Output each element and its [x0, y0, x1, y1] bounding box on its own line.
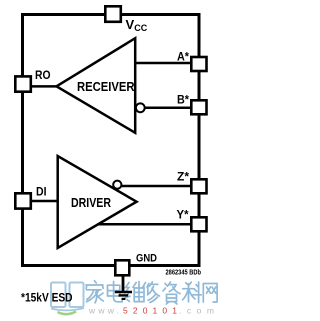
wire RO: [31, 85, 58, 88]
pin DI: [15, 193, 30, 208]
料: [183, 282, 202, 303]
wire Z*: [121, 185, 192, 188]
资: [163, 282, 180, 304]
svg-text:V: V: [126, 17, 135, 32]
svg-text:.com: .com: [179, 306, 214, 316]
pin A*: [191, 57, 206, 71]
svg-text:Y*: Y*: [177, 208, 189, 222]
wire B*: [144, 107, 192, 110]
wire bottom: [21, 264, 201, 267]
svg-text:*15kV ESD: *15kV ESD: [21, 290, 73, 304]
pin RO: [15, 76, 30, 91]
ground: [115, 276, 132, 299]
op-amp DRIVER: [58, 156, 137, 248]
pin GND: [115, 260, 129, 275]
pin VCC: [105, 6, 121, 21]
pin Y*: [191, 217, 206, 231]
wire top: [21, 13, 201, 16]
svg-text:GND: GND: [136, 253, 157, 265]
watermark chinese text 家电维修资料网: [86, 281, 217, 304]
pin Z*: [191, 179, 206, 193]
svg-text:www.: www.: [88, 306, 119, 316]
家: [86, 281, 103, 303]
修: [142, 282, 159, 302]
inverting input bubble (receiver B*): [136, 103, 145, 112]
wire Y*: [98, 223, 192, 226]
svg-text:520101: 520101: [123, 306, 177, 316]
wire DI: [31, 200, 59, 203]
svg-text:A*: A*: [177, 49, 189, 63]
wire left rail: [21, 13, 24, 267]
wire A*: [136, 62, 192, 65]
svg-text:Z*: Z*: [177, 169, 189, 183]
svg-text:DI: DI: [36, 185, 47, 199]
op-amp RECEIVER: [57, 38, 136, 133]
watermark logo (open book): [51, 283, 84, 315]
pin B*: [191, 100, 206, 114]
svg-text:CC: CC: [134, 23, 147, 33]
inverting output bubble (driver Z*): [113, 181, 121, 189]
网: [203, 284, 217, 303]
维: [125, 282, 144, 302]
svg-text:DRIVER: DRIVER: [71, 196, 111, 210]
svg-text:2862345 BDb: 2862345 BDb: [166, 268, 202, 277]
svg-text:B*: B*: [177, 92, 189, 106]
label VCC: [126, 17, 148, 33]
svg-text:RECEIVER: RECEIVER: [77, 80, 135, 94]
svg-text:RO: RO: [35, 68, 51, 82]
wire right rail: [198, 13, 201, 267]
watermark url www.520101.com: [88, 306, 214, 316]
电: [108, 281, 123, 302]
